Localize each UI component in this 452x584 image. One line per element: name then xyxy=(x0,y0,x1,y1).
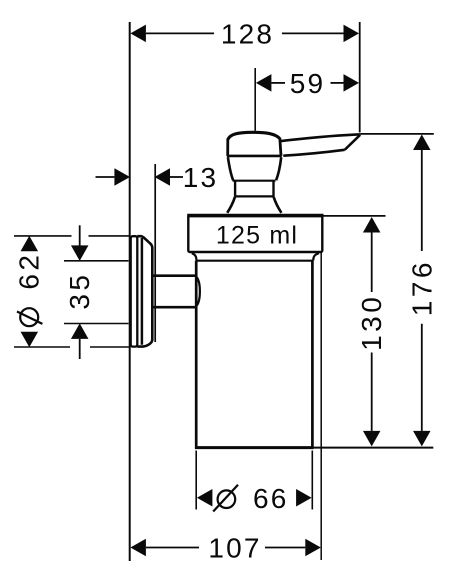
svg-text:62: 62 xyxy=(14,252,45,290)
escutcheon dome profile xyxy=(137,236,152,346)
svg-text:66: 66 xyxy=(253,483,289,514)
spout tip cut xyxy=(345,135,361,150)
dimension diameter 62 xyxy=(21,236,39,347)
reference line 130 top xyxy=(322,215,385,217)
dimension 107 xyxy=(130,539,320,557)
pump shoulder xyxy=(228,157,233,180)
reference lines 35 xyxy=(64,261,129,324)
pump bell flare xyxy=(227,197,235,213)
svg-text:13: 13 xyxy=(183,162,219,193)
extension lines diameter 62 xyxy=(14,236,129,347)
escutcheon inner ring line xyxy=(141,238,144,345)
extension lines diameter 66 xyxy=(196,451,312,510)
dimension 130 xyxy=(363,217,381,446)
dimension 13 xyxy=(96,168,184,186)
svg-text:125 ml: 125 ml xyxy=(216,221,298,249)
extension line 107 xyxy=(320,253,322,560)
pump cap sides xyxy=(226,139,229,156)
svg-text:59: 59 xyxy=(290,68,326,99)
dimension diameter 66 xyxy=(197,489,312,507)
reference line bottom xyxy=(313,447,433,449)
container right edge xyxy=(311,261,314,449)
holder arm bottom xyxy=(153,306,197,309)
collar top thick edge xyxy=(187,214,323,218)
holder arm top xyxy=(153,274,197,277)
right extension line (128/59) xyxy=(359,22,361,133)
container left edge xyxy=(195,261,198,449)
pump neck sides xyxy=(234,181,236,196)
flare below collar right xyxy=(313,253,319,260)
flare below collar left xyxy=(192,253,197,260)
svg-text:130: 130 xyxy=(356,294,387,351)
extension line 13 (escutcheon front) xyxy=(154,164,156,342)
spout bottom edge xyxy=(283,150,344,156)
spout top edge xyxy=(280,134,360,141)
svg-text:35: 35 xyxy=(64,272,95,310)
pump step line xyxy=(233,180,276,182)
svg-text:128: 128 xyxy=(221,18,274,49)
dimension 59 xyxy=(256,74,359,92)
dimension 128 xyxy=(130,25,359,43)
svg-text:176: 176 xyxy=(406,259,437,316)
holder ring lip xyxy=(197,277,200,305)
pump neck bottom line xyxy=(235,195,275,197)
dimension 35 xyxy=(71,225,89,359)
dimension diameter 66 text xyxy=(213,485,238,512)
dimension 176 xyxy=(413,135,431,447)
holder ring top line xyxy=(196,260,313,262)
svg-text:107: 107 xyxy=(208,533,261,564)
escutcheon back plate xyxy=(131,236,138,346)
wall extension line xyxy=(129,22,131,561)
pump cap dome xyxy=(228,132,280,139)
collar body xyxy=(188,216,322,252)
pump cap bottom line xyxy=(227,155,282,158)
container bottom edge xyxy=(195,446,314,449)
dimension diameter 62 text xyxy=(17,308,42,326)
reference line 176 top (spout tip) xyxy=(361,133,434,135)
pump center extension line (59) xyxy=(254,68,256,131)
